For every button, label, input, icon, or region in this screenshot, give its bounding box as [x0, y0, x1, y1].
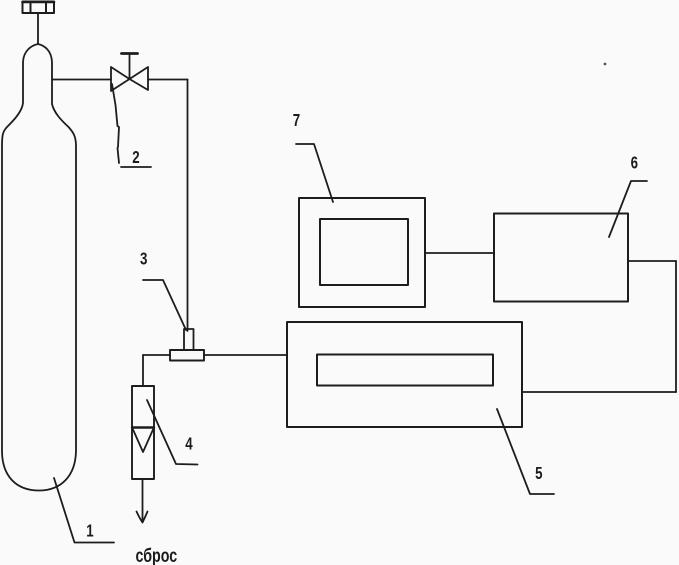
wire box5 to riser [522, 391, 676, 393]
speck [604, 63, 607, 66]
cylinder stem [37, 13, 39, 44]
leader for label 2 [112, 84, 119, 163]
leader for label 1 [54, 478, 114, 543]
svg-text:1: 1 [86, 522, 94, 541]
valve V1 left triangle [111, 67, 130, 91]
analyzer box 5 [287, 322, 522, 427]
svg-text:3: 3 [140, 250, 148, 269]
leader for label 7 [296, 144, 333, 202]
wire cylinder to valve [52, 79, 111, 81]
leader for label 5 [497, 409, 554, 494]
connector box7 to box6 [425, 252, 494, 254]
monitor box 7 screen [320, 219, 408, 285]
vent arrow head [137, 512, 148, 523]
gas cylinder body (1) [2, 44, 76, 491]
svg-text:2: 2 [132, 148, 140, 167]
leader for label 4 [147, 400, 198, 465]
cylinder cap [23, 2, 55, 14]
svg-text:7: 7 [293, 111, 300, 130]
box 6 [494, 214, 628, 302]
wire corner down to sensor port [187, 80, 189, 332]
wire valve to corner [148, 79, 188, 81]
analyzer slot [317, 355, 493, 386]
valve handle [122, 52, 138, 55]
wire T-fitting left [143, 354, 170, 356]
wire box6 to riser [628, 260, 676, 262]
vent wire below rotameter [142, 479, 144, 521]
rotameter (4) body [132, 386, 154, 479]
svg-text:4: 4 [185, 435, 193, 454]
svg-text:сброс: сброс [136, 545, 178, 565]
leader for label 6 [609, 181, 647, 237]
svg-text:5: 5 [535, 464, 543, 483]
wire T-fitting right to box 5 [204, 354, 287, 356]
valve V1 right triangle [130, 67, 149, 90]
rotameter divider [132, 426, 154, 428]
leader for label 3 [143, 280, 186, 330]
sensor T-fitting (3) vertical port [184, 329, 194, 350]
riser wire [675, 261, 677, 392]
sensor T-fitting (3) body [170, 350, 204, 361]
valve stem [129, 55, 131, 80]
svg-text:6: 6 [631, 154, 639, 173]
monitor box 7 outer [299, 198, 425, 307]
wire down to rotameter [142, 355, 144, 386]
rotameter float V [133, 429, 154, 453]
